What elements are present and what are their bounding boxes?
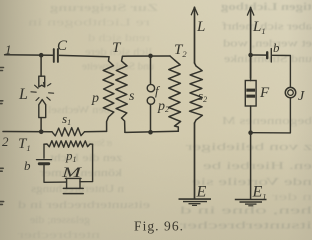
- svg-text:nterbrecher: nterbrecher: [17, 229, 100, 240]
- arc lamp L upper electrode: [39, 76, 45, 87]
- spark gap f lower ball: [147, 97, 154, 104]
- svg-text:aber sich mehrf: aber sich mehrf: [222, 21, 312, 33]
- node junction L1 and meter branch: [248, 53, 253, 58]
- microphone loop left side upper: [43, 144, 45, 158]
- svg-text:F: F: [259, 85, 270, 101]
- coil s1 (horizontal zigzag on wire 2): [52, 128, 85, 137]
- hot-wire meter J inner circle: [288, 90, 294, 96]
- fuse F band 2: [246, 95, 255, 98]
- svg-text:et werden, wod: et werden, wod: [222, 38, 312, 50]
- svg-text:E: E: [196, 184, 207, 201]
- wire arc lamp bottom to wire 2 node: [40, 118, 42, 132]
- node junction of wire 2 and arc lamp branch: [39, 130, 44, 135]
- svg-text:b: b: [273, 40, 280, 55]
- coil s (secondary of transformer T): [116, 56, 128, 132]
- wire from capacitor C to coil p: [60, 55, 110, 56]
- arc lamp L lower electrode: [39, 100, 46, 118]
- node top of spark gap branch: [148, 54, 153, 59]
- svg-text:hen, ohne in d: hen, ohne in d: [179, 205, 312, 217]
- svg-text:M: M: [60, 165, 83, 181]
- svg-text:gelassen; die: gelassen; die: [30, 214, 90, 226]
- capacitor C left plate: [53, 49, 55, 62]
- svg-text:ben Wechsel: ben Wechsel: [48, 104, 110, 116]
- battery b short thick plate: [39, 162, 48, 165]
- svg-text:s: s: [129, 89, 135, 104]
- antenna lead L lower to earth: [194, 123, 196, 198]
- wire L1 lower to earth: [250, 133, 252, 199]
- svg-text:Fig. 96.: Fig. 96.: [134, 219, 183, 234]
- svg-text:2: 2: [2, 134, 9, 149]
- fuse F band 1: [246, 89, 255, 92]
- svg-text:J: J: [298, 89, 305, 104]
- cut-off glyphs at left page edge: [0, 68, 4, 205]
- battery b long plate: [37, 159, 52, 161]
- svg-text:C: C: [57, 38, 68, 54]
- antenna lead L upper: [194, 7, 196, 63]
- svg-text:zen die Licht: zen die Licht: [50, 152, 122, 164]
- svg-text:er Strome: er Strome: [84, 137, 112, 149]
- microphone M middle plate: [63, 187, 83, 189]
- antenna L1 arrowhead: [247, 8, 253, 16]
- svg-text:p: p: [91, 91, 99, 106]
- microphone loop right side: [80, 144, 93, 182]
- svg-text:re Lichtbogen in: re Lichtbogen in: [27, 17, 150, 29]
- svg-text:en. Hierbei be: en. Hierbei be: [203, 160, 312, 172]
- coil p (primary of transformer T): [103, 57, 114, 132]
- svg-text:n der: n der: [271, 191, 312, 203]
- wire coupling-block bottom: [125, 131, 178, 132]
- capacitor b short plate: [266, 52, 268, 58]
- wire node to capacitor b: [253, 54, 267, 56]
- microphone M left side: [66, 178, 68, 188]
- arc lamp L spark rays: [31, 83, 54, 101]
- microphone M bottom plate: [63, 193, 83, 195]
- wire meter to branch bottom: [253, 98, 291, 133]
- antenna lead L1 upper: [250, 8, 252, 79]
- svg-text:z von beliebiger: z von beliebiger: [185, 141, 312, 153]
- earth E1: [235, 200, 267, 206]
- antenna L arrowhead: [191, 7, 197, 15]
- svg-text:L: L: [196, 19, 205, 35]
- svg-text:itsunterbrecher: itsunterbrecher: [179, 220, 312, 232]
- microphone M right side: [79, 178, 81, 188]
- svg-text:L: L: [18, 86, 28, 103]
- fuse F body: [245, 81, 256, 107]
- svg-text:begonnenes M: begonnenes M: [222, 115, 312, 127]
- microphone M top plate: [65, 177, 81, 179]
- svg-text:Zur Steigerung: Zur Steigerung: [49, 2, 158, 14]
- hot-wire meter J outer circle: [285, 87, 295, 97]
- capacitor C right plate: [57, 49, 59, 62]
- svg-text:tigen Lichtbog: tigen Lichtbog: [220, 1, 312, 13]
- wire L1 into fuse: [250, 55, 252, 81]
- wire from s1 up to coil p bottom: [85, 130, 107, 132]
- earth E: [179, 199, 212, 205]
- coil p2 (primary of oscillation transformer T2): [169, 56, 181, 131]
- spark gap f upper ball: [147, 84, 154, 91]
- microphone loop left side lower: [44, 165, 66, 182]
- wire coupling-block top (s to p2): [123, 55, 171, 57]
- coil p1 (horizontal zigzag, loop top): [44, 141, 93, 148]
- spark gap branch lower wire: [150, 104, 152, 132]
- node junction of wire 1 and arc lamp branch: [39, 53, 44, 58]
- node junction L1 bottom and meter branch: [248, 130, 253, 135]
- svg-text:b: b: [24, 158, 31, 173]
- wire capacitor b to meter branch corner: [273, 55, 291, 87]
- coil s2 (secondary, antenna circuit): [190, 63, 203, 123]
- node bottom of spark gap branch: [148, 130, 153, 135]
- capacitor b tall plate: [270, 49, 272, 62]
- wire fuse to node: [250, 106, 252, 133]
- svg-text:1: 1: [5, 42, 12, 57]
- wire 2 (bottom-left horizontal lead): [3, 131, 52, 133]
- svg-text:eitsunterbrecher in d: eitsunterbrecher in d: [17, 199, 150, 211]
- wire from node to arc lamp top electrode: [40, 55, 42, 76]
- wire 1 (top-left horizontal lead): [5, 54, 53, 57]
- spark gap branch upper wire: [150, 56, 152, 84]
